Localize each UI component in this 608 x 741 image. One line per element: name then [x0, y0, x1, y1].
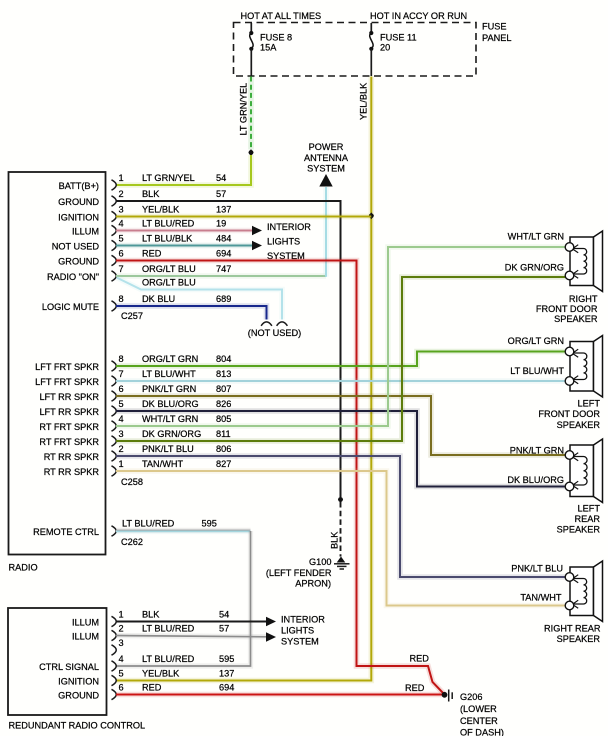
label INTERIOR LIGHTS SYSTEM (bottom)	[281, 615, 325, 647]
label (NOT USED)	[248, 328, 301, 338]
svg-text:LT BLU/WHT: LT BLU/WHT	[510, 366, 564, 376]
svg-text:5: 5	[119, 234, 124, 244]
label TAN/WHT	[520, 593, 562, 603]
svg-text:BLK: BLK	[142, 189, 160, 199]
svg-text:RIGHT: RIGHT	[569, 294, 598, 304]
wire LT GRN/YEL solid to radio pin 1	[116, 155, 251, 185]
svg-text:(NOT USED): (NOT USED)	[248, 328, 301, 338]
wire DK BLU/ORG pin5 to left rear speaker	[116, 411, 566, 487]
svg-text:5: 5	[119, 399, 124, 409]
label LT BLU/WHT	[510, 366, 564, 376]
label DK BLU/ORG	[507, 475, 564, 485]
svg-text:813: 813	[216, 369, 231, 379]
svg-text:8: 8	[119, 354, 124, 364]
label BLK (vertical)	[330, 531, 340, 549]
svg-text:BATT(B+): BATT(B+)	[59, 181, 99, 191]
svg-text:SPEAKER: SPEAKER	[557, 525, 601, 535]
wire ORG/LT GRN pin8 to left front door speaker	[116, 352, 566, 367]
C262 hook	[112, 526, 117, 536]
label REDUNDANT RADIO CONTROL	[9, 721, 146, 731]
label RIGHT FRONT DOOR SPEAKER	[536, 294, 598, 324]
svg-text:2: 2	[119, 444, 124, 454]
svg-text:WHT/LT GRN: WHT/LT GRN	[508, 232, 564, 242]
svg-text:LIGHTS: LIGHTS	[267, 237, 300, 247]
svg-text:RED: RED	[142, 249, 162, 259]
svg-text:TAN/WHT: TAN/WHT	[520, 593, 562, 603]
svg-text:3: 3	[119, 205, 124, 215]
fuse 11	[369, 23, 373, 76]
svg-text:WHT/LT GRN: WHT/LT GRN	[142, 414, 198, 424]
wire LT BLU/RED remote control to redundant radio pin 4	[116, 530, 251, 666]
svg-text:FRONT DOOR: FRONT DOOR	[538, 409, 600, 419]
label PNK/LT BLU	[511, 564, 563, 574]
wire LT GRN/YEL dashed from fuse 8	[248, 77, 254, 150]
svg-text:HOT AT ALL TIMES: HOT AT ALL TIMES	[241, 11, 322, 21]
svg-text:4: 4	[119, 414, 124, 424]
svg-text:INTERIOR: INTERIOR	[267, 222, 311, 232]
label HOT IN ACCY OR RUN	[370, 11, 467, 21]
svg-text:BLK: BLK	[330, 531, 340, 549]
left rear speaker	[565, 439, 602, 503]
svg-text:HOT IN ACCY OR RUN: HOT IN ACCY OR RUN	[370, 11, 467, 21]
ground G100	[334, 557, 350, 570]
C258 pin hooks	[112, 361, 117, 476]
RRC pin hooks	[112, 616, 117, 699]
label FUSE 11 / 20	[380, 33, 417, 53]
svg-text:804: 804	[216, 354, 231, 364]
svg-text:RIGHT REAR: RIGHT REAR	[544, 624, 601, 634]
svg-text:LT BLU/BLK: LT BLU/BLK	[142, 234, 193, 244]
svg-text:826: 826	[216, 399, 231, 409]
label FUSE 8 / 15A	[260, 33, 292, 53]
ground G206	[442, 690, 453, 702]
svg-text:C258: C258	[121, 477, 143, 487]
svg-text:694: 694	[219, 683, 234, 693]
svg-text:LFT RR SPKR: LFT RR SPKR	[39, 392, 99, 402]
label RED (upper)	[410, 654, 430, 664]
svg-text:C257: C257	[121, 311, 143, 321]
svg-text:RT FRT SPKR: RT FRT SPKR	[39, 422, 99, 432]
label INTERIOR LIGHTS SYSTEM (top)	[267, 222, 311, 261]
RRC pin numbers and wire names	[119, 610, 235, 693]
svg-text:FRONT DOOR: FRONT DOOR	[536, 304, 598, 314]
svg-text:APRON): APRON)	[295, 579, 331, 589]
wire BLK pin2 to G100	[116, 201, 341, 497]
label REMOTE CTRL	[33, 527, 99, 537]
svg-text:5: 5	[119, 669, 124, 679]
svg-text:8: 8	[119, 294, 124, 304]
radio connector C257 pin labels	[42, 181, 100, 312]
svg-text:LEFT: LEFT	[578, 504, 601, 514]
svg-text:YEL/BLK: YEL/BLK	[142, 669, 180, 679]
svg-text:2: 2	[119, 624, 124, 634]
svg-text:6: 6	[119, 384, 124, 394]
svg-text:54: 54	[216, 173, 226, 183]
svg-text:LT BLU/WHT: LT BLU/WHT	[142, 369, 196, 379]
svg-text:RADIO: RADIO	[9, 563, 38, 573]
svg-text:GROUND: GROUND	[58, 690, 99, 700]
left front door speaker	[565, 336, 602, 398]
svg-text:LFT FRT SPKR: LFT FRT SPKR	[35, 377, 99, 387]
svg-text:FUSE 8: FUSE 8	[260, 33, 292, 43]
svg-text:4: 4	[119, 654, 124, 664]
svg-text:ORG/LT BLU: ORG/LT BLU	[142, 264, 196, 274]
svg-text:LFT FRT SPKR: LFT FRT SPKR	[35, 362, 99, 372]
svg-text:7: 7	[119, 369, 124, 379]
svg-text:689: 689	[216, 294, 231, 304]
svg-text:19: 19	[216, 219, 226, 229]
wire RED pin6 to G206	[116, 261, 444, 695]
svg-text:15A: 15A	[260, 43, 277, 53]
junction dot on LT GRN/YEL	[248, 149, 253, 156]
svg-text:3: 3	[119, 429, 124, 439]
svg-text:YEL/BLK: YEL/BLK	[359, 82, 369, 120]
junction dot YEL/BLK x radio pin 3	[369, 212, 374, 219]
svg-text:LT BLU/RED: LT BLU/RED	[142, 219, 195, 229]
svg-text:1: 1	[119, 610, 124, 620]
svg-text:54: 54	[219, 610, 229, 620]
svg-text:ORG/LT GRN: ORG/LT GRN	[508, 336, 564, 346]
label LT BLU/RED 595	[122, 519, 217, 529]
svg-text:PNK/LT GRN: PNK/LT GRN	[510, 446, 564, 456]
svg-text:4: 4	[119, 219, 124, 229]
label C258	[121, 477, 143, 487]
label G206 (LOWER CENTER OF DASH)	[460, 692, 504, 738]
wire BLK RRC pin1 to interior lights	[116, 621, 267, 623]
label POWER ANTENNA SYSTEM	[304, 142, 349, 174]
svg-text:PNK/LT BLU: PNK/LT BLU	[142, 444, 194, 454]
right front door speaker	[565, 231, 602, 292]
fuse 8	[249, 23, 253, 76]
wire LT BLU/BLK pin5 to interior lights	[116, 243, 253, 249]
wire PNK/LT BLU pin2 to right rear speaker	[116, 456, 566, 577]
svg-text:RT RR SPKR: RT RR SPKR	[44, 467, 100, 477]
svg-text:SPEAKER: SPEAKER	[554, 314, 598, 324]
C257 pin hooks	[112, 180, 117, 311]
svg-text:YEL/BLK: YEL/BLK	[142, 205, 180, 215]
svg-text:LT BLU/RED: LT BLU/RED	[122, 519, 175, 529]
wire PNK/LT GRN pin6 to left rear speaker	[116, 396, 566, 455]
svg-text:747: 747	[216, 264, 231, 274]
svg-text:REMOTE CTRL: REMOTE CTRL	[33, 527, 99, 537]
svg-text:RED: RED	[405, 683, 425, 693]
label LT GRN/YEL (vertical)	[239, 83, 249, 136]
svg-text:DK GRN/ORG: DK GRN/ORG	[142, 429, 201, 439]
label C262	[121, 537, 143, 547]
svg-text:TAN/WHT: TAN/WHT	[142, 459, 184, 469]
svg-text:LT BLU/RED: LT BLU/RED	[142, 624, 195, 634]
wire BLK dashed to ground	[340, 502, 342, 557]
label RED (lower)	[405, 683, 425, 693]
svg-text:CTRL SIGNAL: CTRL SIGNAL	[39, 662, 99, 672]
svg-text:DK GRN/ORG: DK GRN/ORG	[505, 263, 564, 273]
svg-text:SPEAKER: SPEAKER	[557, 634, 601, 644]
svg-text:DK BLU: DK BLU	[142, 294, 175, 304]
svg-text:C262: C262	[121, 537, 143, 547]
svg-text:G100: G100	[309, 557, 331, 567]
wire RED RRC pin6 to G206	[116, 692, 442, 698]
wire YEL/BLK pin3	[116, 214, 371, 220]
arrow interior lights 2	[252, 241, 262, 250]
label FUSE PANEL	[482, 22, 511, 44]
svg-text:REDUNDANT RADIO CONTROL: REDUNDANT RADIO CONTROL	[9, 721, 146, 731]
svg-text:FUSE: FUSE	[482, 22, 507, 32]
svg-text:LOGIC MUTE: LOGIC MUTE	[42, 302, 99, 312]
svg-text:806: 806	[216, 444, 231, 454]
svg-text:(LOWER: (LOWER	[460, 704, 497, 714]
svg-text:SYSTEM: SYSTEM	[281, 637, 319, 647]
label PNK/LT GRN	[510, 446, 564, 456]
radio box	[9, 172, 106, 555]
label HOT AT ALL TIMES	[241, 11, 322, 21]
wire DK GRN/ORG pin3 to right front door speaker	[116, 277, 566, 441]
svg-text:G206: G206	[460, 692, 482, 702]
wire LT BLU/WHT pin7 to left front door speaker	[116, 378, 566, 384]
junction dot BLK	[338, 496, 343, 503]
svg-text:595: 595	[219, 654, 234, 664]
svg-text:57: 57	[216, 189, 226, 199]
svg-text:137: 137	[219, 669, 234, 679]
svg-text:GROUND: GROUND	[58, 256, 99, 266]
svg-text:CENTER: CENTER	[460, 716, 498, 726]
svg-text:FUSE 11: FUSE 11	[380, 33, 417, 43]
svg-text:1: 1	[119, 173, 124, 183]
label WHT/LT GRN	[508, 232, 564, 242]
svg-text:LFT RR SPKR: LFT RR SPKR	[39, 407, 99, 417]
arrow interior lights 1	[252, 226, 262, 235]
svg-text:595: 595	[202, 519, 217, 529]
svg-text:DK BLU/ORG: DK BLU/ORG	[507, 475, 564, 485]
redundant radio control labels	[39, 617, 99, 700]
svg-text:PNK/LT GRN: PNK/LT GRN	[142, 384, 196, 394]
svg-text:DK BLU/ORG: DK BLU/ORG	[142, 399, 199, 409]
label RADIO	[9, 563, 38, 573]
svg-text:1: 1	[119, 459, 124, 469]
svg-text:PNK/LT BLU: PNK/LT BLU	[511, 564, 563, 574]
label ORG/LT GRN	[508, 336, 564, 346]
svg-text:7: 7	[119, 264, 124, 274]
svg-text:LT GRN/YEL: LT GRN/YEL	[142, 173, 195, 183]
svg-text:LIGHTS: LIGHTS	[281, 626, 314, 636]
svg-text:57: 57	[219, 624, 229, 634]
not used hooks	[261, 322, 287, 326]
svg-text:OF DASH): OF DASH)	[460, 728, 504, 737]
svg-text:RADIO "ON": RADIO "ON"	[47, 272, 99, 282]
arrow interior lights 3	[266, 617, 276, 626]
svg-text:RED: RED	[410, 654, 430, 664]
label DK GRN/ORG	[505, 263, 564, 273]
svg-text:ILLUM: ILLUM	[72, 631, 99, 641]
svg-text:RED: RED	[142, 683, 162, 693]
label G100 (LEFT FENDER APRON)	[266, 557, 332, 589]
svg-text:POWER: POWER	[309, 142, 344, 152]
label LEFT FRONT DOOR SPEAKER	[538, 399, 600, 431]
svg-text:RT FRT SPKR: RT FRT SPKR	[39, 437, 99, 447]
label C257	[121, 311, 143, 321]
label RIGHT REAR SPEAKER	[544, 624, 601, 645]
arrow interior lights 4	[266, 632, 276, 641]
svg-text:ORG/LT GRN: ORG/LT GRN	[142, 354, 198, 364]
svg-text:20: 20	[380, 43, 390, 53]
svg-text:(LEFT FENDER: (LEFT FENDER	[266, 568, 332, 578]
svg-text:6: 6	[119, 249, 124, 259]
wire YEL/BLK vertical from fuse 11 down to redundant radio pin 5	[116, 77, 371, 681]
svg-text:807: 807	[216, 384, 231, 394]
wire LT BLU/RED pin4 to interior lights	[116, 228, 253, 234]
svg-text:NOT USED: NOT USED	[52, 241, 100, 251]
label LEFT REAR SPEAKER	[557, 504, 601, 535]
svg-text:ILLUM: ILLUM	[72, 226, 99, 236]
fuse panel box	[234, 23, 477, 77]
svg-text:ILLUM: ILLUM	[72, 617, 99, 627]
svg-text:RT RR SPKR: RT RR SPKR	[44, 452, 100, 462]
radio connector C258 speaker labels	[35, 362, 99, 477]
svg-text:LT BLU/RED: LT BLU/RED	[142, 654, 195, 664]
wire DK BLU pin8 (not used)	[116, 306, 267, 320]
svg-text:805: 805	[216, 414, 231, 424]
wire ORG/LT BLU branch (not used)	[117, 278, 283, 320]
svg-text:INTERIOR: INTERIOR	[281, 615, 325, 625]
svg-text:827: 827	[216, 459, 231, 469]
label YEL/BLK (vertical)	[359, 82, 369, 120]
svg-text:BLK: BLK	[142, 610, 160, 620]
svg-text:REAR: REAR	[574, 514, 600, 524]
right rear speaker	[565, 561, 602, 622]
svg-text:137: 137	[216, 205, 231, 215]
C258 pin numbers and wire names	[119, 354, 232, 469]
svg-text:PANEL: PANEL	[482, 33, 511, 43]
C257 pin numbers and wire names	[119, 173, 232, 304]
svg-text:2: 2	[119, 189, 124, 199]
svg-text:ORG/LT BLU: ORG/LT BLU	[142, 278, 196, 288]
wire ORG/LT BLU pin7 to power antenna	[116, 187, 326, 277]
svg-text:SYSTEM: SYSTEM	[307, 164, 345, 174]
svg-text:3: 3	[119, 638, 124, 648]
svg-text:484: 484	[216, 234, 231, 244]
wire LT BLU/RED RRC pin2 to interior lights	[116, 636, 267, 637]
svg-text:LT GRN/YEL: LT GRN/YEL	[239, 83, 249, 136]
wire WHT/LT GRN pin4 to right front door speaker	[116, 247, 566, 426]
redundant radio control box	[8, 608, 107, 715]
svg-text:ANTENNA: ANTENNA	[304, 153, 349, 163]
wire TAN/WHT pin1 to right rear speaker	[116, 471, 566, 606]
svg-text:811: 811	[216, 429, 231, 439]
svg-text:GROUND: GROUND	[58, 197, 99, 207]
svg-text:IGNITION: IGNITION	[58, 676, 99, 686]
svg-text:IGNITION: IGNITION	[58, 212, 99, 222]
svg-text:6: 6	[119, 683, 124, 693]
svg-text:694: 694	[216, 249, 231, 259]
arrow to power antenna system	[319, 174, 332, 187]
svg-text:SPEAKER: SPEAKER	[557, 420, 601, 430]
svg-text:LEFT: LEFT	[578, 399, 601, 409]
